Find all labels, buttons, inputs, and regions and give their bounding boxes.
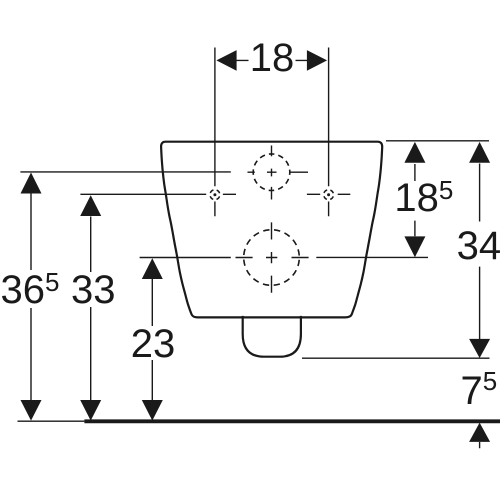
svg-text:34: 34	[457, 224, 500, 268]
svg-text:18: 18	[250, 36, 295, 80]
svg-text:23: 23	[131, 322, 176, 366]
svg-text:33: 33	[71, 268, 116, 312]
